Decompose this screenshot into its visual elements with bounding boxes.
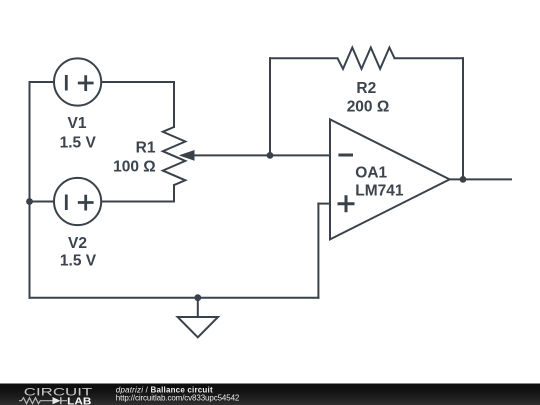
wire (462, 58, 464, 179)
svg-text:LAB: LAB (67, 396, 91, 405)
wire (317, 204, 319, 298)
footer bar (0, 384, 540, 405)
voltage source V1 (54, 58, 101, 105)
wire (102, 201, 174, 203)
svg-text:R1: R1 (136, 140, 156, 157)
svg-text:R2: R2 (356, 80, 376, 97)
op-amp OA1 (330, 119, 450, 239)
svg-text:1.5 V: 1.5 V (60, 135, 97, 152)
node junction dot (267, 152, 274, 159)
wire (193, 154, 330, 156)
voltage source V2 (54, 178, 101, 225)
svg-text:1.5 V: 1.5 V (60, 253, 97, 270)
potentiometer R1 (163, 127, 186, 185)
svg-text:V1: V1 (68, 115, 87, 132)
wire (30, 201, 54, 203)
svg-text:OA1: OA1 (355, 165, 387, 182)
CircuitLab logo diode (53, 397, 61, 404)
ground (178, 298, 218, 338)
node junction dot (194, 294, 201, 301)
wire (395, 57, 464, 59)
node junction dot (460, 176, 467, 183)
svg-text:100 Ω: 100 Ω (113, 159, 156, 176)
R1 wiper arrow (179, 150, 195, 161)
wire (30, 81, 54, 83)
wire (450, 178, 511, 180)
svg-text:200 Ω: 200 Ω (347, 99, 390, 116)
wire (318, 203, 330, 205)
resistor R2 (338, 48, 395, 69)
wire (270, 57, 338, 59)
wire (269, 58, 271, 155)
CircuitLab logo schematic line (19, 397, 67, 404)
svg-text:LM741: LM741 (355, 183, 404, 200)
wire (30, 297, 319, 299)
op-amp non-inverting input marker (338, 195, 355, 212)
wire (102, 81, 174, 83)
wire (29, 82, 31, 298)
wire (173, 82, 175, 127)
op-amp inverting input marker (338, 154, 353, 157)
node junction dot (26, 198, 33, 205)
svg-text:http://circuitlab.com/cv833upc: http://circuitlab.com/cv833upc54542 (116, 393, 240, 402)
wire (173, 185, 175, 201)
svg-text:V2: V2 (68, 235, 87, 252)
